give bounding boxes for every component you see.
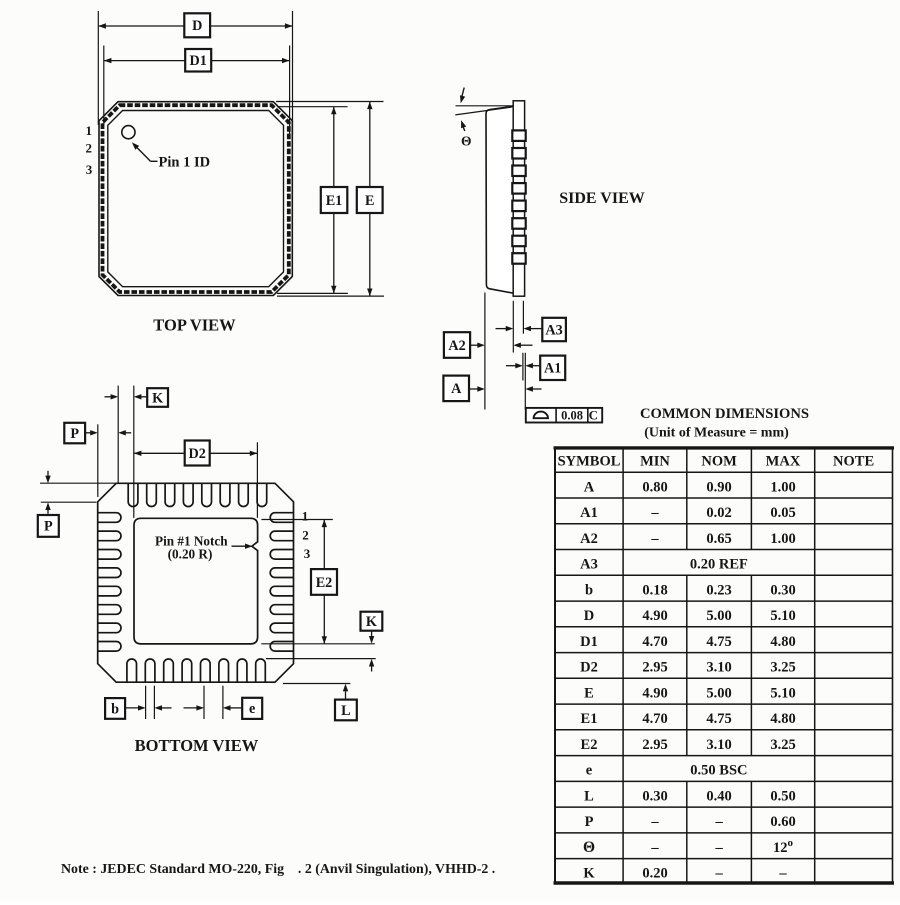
svg-text:A2: A2 [448, 338, 465, 354]
dimension e extension lines [203, 686, 205, 719]
dimension P (left) extension lines [40, 482, 116, 484]
dimension E2 label box [311, 569, 337, 595]
svg-text:E: E [584, 685, 594, 701]
dimension A1 arrows [506, 365, 519, 367]
dimension A label box [443, 376, 469, 402]
svg-text:MAX: MAX [766, 454, 801, 470]
svg-text:A3: A3 [545, 322, 562, 338]
pin #1 notch arrow [232, 545, 249, 547]
dimension K (top) arrows [105, 396, 115, 398]
side view: package body [486, 106, 514, 293]
svg-text:L: L [584, 788, 594, 804]
dimension L arrow [345, 692, 347, 700]
svg-text:E1: E1 [326, 193, 343, 209]
dimension A arrows [469, 388, 481, 390]
svg-text:P: P [70, 426, 79, 442]
svg-text:(Unit of Measure = mm): (Unit of Measure = mm) [644, 426, 789, 441]
svg-text:12o: 12o [773, 837, 794, 856]
dimension e label box [242, 698, 262, 719]
dimension A3 label box [542, 318, 566, 341]
svg-text:5.10: 5.10 [770, 685, 795, 701]
dimension D1 label box [185, 49, 211, 72]
dimension D line and arrows [98, 25, 292, 27]
svg-text:3: 3 [86, 162, 93, 177]
svg-text:MIN: MIN [640, 454, 670, 470]
theta upper arrow [461, 88, 464, 99]
dimension b label box [105, 698, 125, 719]
svg-text:TOP VIEW: TOP VIEW [153, 316, 236, 335]
svg-text:e: e [249, 701, 255, 717]
flatness symbol [534, 412, 548, 419]
dimension E label box [357, 187, 383, 213]
svg-text:E2: E2 [581, 737, 598, 753]
svg-text:0.30: 0.30 [770, 582, 795, 598]
dimension A3 arrows [496, 328, 510, 330]
dimension K (top) extension line [117, 386, 119, 484]
svg-text:E: E [365, 193, 374, 209]
svg-text:A2: A2 [580, 531, 598, 547]
svg-text:0.23: 0.23 [706, 582, 731, 598]
svg-text:4.70: 4.70 [642, 711, 667, 727]
table vertical lines [622, 447, 624, 473]
dimension D2 extension lines [133, 386, 135, 518]
dimension K (top) label box [147, 388, 168, 407]
svg-text:4.75: 4.75 [706, 711, 731, 727]
svg-text:0.18: 0.18 [642, 582, 667, 598]
svg-text:Θ: Θ [461, 134, 472, 149]
svg-text:A1: A1 [544, 361, 561, 377]
dimension E1 label box [321, 187, 348, 213]
bottom view: exposed center pad with pin 1 notch [134, 518, 258, 644]
dimension E1 line and arrows [333, 107, 335, 294]
svg-text:0.65: 0.65 [706, 531, 731, 547]
svg-text:1.00: 1.00 [770, 531, 795, 547]
svg-text:–: – [778, 866, 787, 882]
table horizontal lines [555, 471, 893, 473]
svg-text:5.00: 5.00 [706, 608, 731, 624]
dimension P (top) arrows [85, 432, 94, 434]
dimension E2 line and arrows [323, 520, 325, 644]
svg-text:1: 1 [85, 123, 92, 138]
svg-text:4.90: 4.90 [642, 608, 667, 624]
pin 1 ID circle [122, 126, 135, 139]
svg-text:3: 3 [304, 546, 311, 561]
dimension E2 extension lines [261, 519, 332, 521]
svg-text:4.70: 4.70 [642, 634, 667, 650]
svg-text:SIDE VIEW: SIDE VIEW [559, 190, 645, 207]
svg-text:0.50 BSC: 0.50 BSC [690, 763, 747, 779]
side view: lead frame column [513, 101, 524, 296]
svg-text:COMMON DIMENSIONS: COMMON DIMENSIONS [640, 406, 809, 422]
bottom view: right column pads [270, 513, 293, 523]
svg-text:P: P [585, 814, 594, 830]
svg-text:3.10: 3.10 [706, 737, 731, 753]
svg-text:0.50: 0.50 [770, 788, 795, 804]
svg-text:E1: E1 [581, 711, 598, 727]
svg-text:5.00: 5.00 [706, 685, 731, 701]
svg-text:2.95: 2.95 [642, 660, 667, 676]
svg-text:0.80: 0.80 [642, 479, 667, 495]
svg-text:P: P [44, 519, 53, 535]
svg-text:D: D [192, 18, 202, 34]
dimension A2 label box [444, 332, 470, 358]
dimension P (top) extension line [97, 424, 99, 497]
svg-text:4.80: 4.80 [770, 711, 795, 727]
dimension E line and arrows [369, 102, 371, 297]
dimension L label box [335, 700, 357, 721]
svg-text:D2: D2 [580, 660, 598, 676]
svg-text:L: L [341, 703, 350, 719]
svg-text:3.10: 3.10 [706, 660, 731, 676]
svg-text:A: A [584, 479, 595, 495]
svg-text:0.08: 0.08 [561, 408, 583, 422]
svg-text:4.80: 4.80 [770, 634, 795, 650]
dimension b extension lines [145, 686, 147, 719]
dimension L extension line [283, 683, 350, 685]
svg-text:A3: A3 [580, 557, 598, 573]
svg-text:K: K [152, 390, 163, 406]
table frame [554, 446, 895, 449]
svg-text:K: K [583, 866, 595, 882]
dimension D extension lines [97, 11, 99, 125]
svg-text:E2: E2 [316, 575, 333, 591]
dimension K (right) label box [361, 612, 383, 631]
svg-text:A1: A1 [580, 505, 598, 521]
dimension K (right) arrows [371, 631, 373, 640]
svg-text:D: D [584, 608, 594, 624]
bottom view: top row pads [128, 483, 138, 506]
side view extension lines for A dims [484, 293, 486, 410]
top view: package outer outline [99, 102, 292, 296]
pin 1 ID leader arrow [134, 145, 150, 162]
svg-text:0.05: 0.05 [770, 505, 795, 521]
theta horizontal reference line [456, 105, 514, 107]
svg-text:4.90: 4.90 [642, 685, 667, 701]
dimension e arrows [184, 707, 200, 709]
svg-text:–: – [714, 814, 723, 830]
dimension D1 line and arrows [104, 60, 290, 62]
theta angled line [455, 107, 511, 115]
svg-text:Θ: Θ [583, 839, 595, 856]
dimension P (top) label box [64, 423, 85, 444]
svg-text:–: – [714, 840, 723, 856]
svg-text:D1: D1 [580, 634, 598, 650]
dimension P (left) arrows [47, 471, 49, 479]
svg-text:NOTE: NOTE [833, 454, 874, 470]
svg-text:D2: D2 [189, 446, 206, 462]
svg-text:2.95: 2.95 [642, 737, 667, 753]
dimension P (left) label box [38, 515, 59, 537]
svg-text:Note : JEDEC Standard MO-220,: Note : JEDEC Standard MO-220, Fig . 2 (A… [61, 862, 495, 877]
svg-text:4.75: 4.75 [706, 634, 731, 650]
bottom view: package outline [98, 483, 294, 682]
svg-text:(0.20 R): (0.20 R) [168, 547, 213, 562]
dimension D2 line and arrows [134, 452, 257, 454]
top view: package inner outline [108, 111, 284, 287]
svg-text:–: – [650, 505, 659, 521]
svg-text:0.60: 0.60 [770, 814, 795, 830]
dimension A1 label box [540, 356, 565, 380]
flatness callout frame [526, 408, 602, 423]
dimension E1 extension lines [277, 106, 348, 108]
svg-text:b: b [111, 701, 119, 717]
svg-text:2: 2 [85, 141, 92, 156]
side view: lead bumps [512, 130, 525, 141]
svg-text:0.20: 0.20 [642, 866, 667, 882]
svg-text:e: e [586, 763, 593, 779]
svg-text:SYMBOL: SYMBOL [558, 454, 621, 470]
svg-text:0.40: 0.40 [706, 788, 731, 804]
svg-text:Pin 1 ID: Pin 1 ID [159, 155, 211, 171]
dimension b arrows [125, 707, 141, 709]
svg-text:3.25: 3.25 [770, 737, 795, 753]
dimension D label box [184, 13, 210, 37]
svg-text:5.10: 5.10 [770, 608, 795, 624]
svg-text:–: – [714, 866, 723, 882]
theta lower arrow [463, 126, 465, 132]
svg-text:b: b [585, 582, 593, 598]
svg-text:1: 1 [302, 508, 309, 523]
svg-text:0.90: 0.90 [706, 479, 731, 495]
svg-text:K: K [366, 614, 377, 630]
svg-text:3.25: 3.25 [770, 660, 795, 676]
bottom view: bottom row pads [127, 659, 137, 682]
dimension D1 extension lines [103, 46, 105, 126]
dimension A2 arrows [470, 344, 481, 346]
svg-text:A: A [451, 381, 462, 397]
top view: lead band (dashed) [103, 105, 289, 292]
svg-text:1.00: 1.00 [770, 479, 795, 495]
bottom view: left column pads [98, 513, 121, 523]
svg-text:C: C [589, 408, 598, 423]
svg-text:–: – [650, 840, 659, 856]
svg-text:–: – [650, 814, 659, 830]
svg-text:BOTTOM VIEW: BOTTOM VIEW [135, 736, 259, 755]
svg-text:0.20 REF: 0.20 REF [690, 557, 748, 573]
svg-text:0.30: 0.30 [642, 788, 667, 804]
svg-text:D1: D1 [190, 53, 207, 69]
svg-text:0.02: 0.02 [706, 505, 731, 521]
svg-text:–: – [650, 531, 659, 547]
dimension D2 label box [185, 441, 210, 466]
svg-text:2: 2 [302, 528, 309, 543]
dimension E extension lines [276, 101, 384, 103]
svg-text:NOM: NOM [701, 454, 737, 470]
